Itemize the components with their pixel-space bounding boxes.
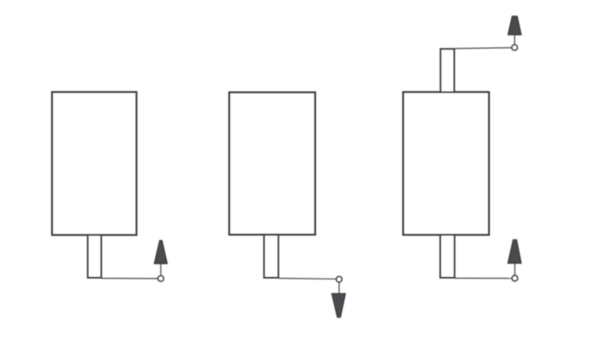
node terminal 2 (middle circle): [336, 276, 342, 282]
flow arrow 3 (up, top of right diagram): [508, 16, 521, 35]
flue stub 3 (top pipe of right body): [441, 49, 455, 92]
wire (terminal 3 to top arrow): [514, 35, 516, 45]
wire (terminal 2 down to arrow): [338, 283, 340, 295]
flue stub 1 (bottom pipe of left body): [88, 236, 102, 278]
flow arrow 1 (up, left diagram): [154, 241, 167, 264]
flue stub 4 (bottom pipe of right body): [440, 236, 454, 278]
wire (bottom stub to bottom terminal): [455, 277, 512, 279]
node terminal 1 (left circle): [158, 276, 164, 282]
wire (middle body outlet to terminal): [278, 277, 336, 280]
appliance body 2 (middle rectangle): [229, 92, 315, 234]
appliance body 1 (left rectangle): [52, 92, 137, 235]
wire (terminal 1 to arrow): [160, 264, 162, 276]
flow arrow 2 (down, middle diagram): [332, 294, 346, 318]
wire (left body outlet to terminal): [101, 277, 158, 279]
node terminal 3 (top-right circle): [512, 45, 518, 51]
wire (top stub to top terminal): [454, 47, 511, 50]
node terminal 4 (bottom-right circle): [512, 275, 518, 281]
flue stub 2 (bottom pipe of middle body): [264, 236, 278, 278]
wire (terminal 4 to bottom arrow): [514, 263, 516, 275]
appliance body 3 (right rectangle): [403, 92, 489, 235]
flow arrow 4 (up, bottom of right diagram): [508, 240, 521, 264]
